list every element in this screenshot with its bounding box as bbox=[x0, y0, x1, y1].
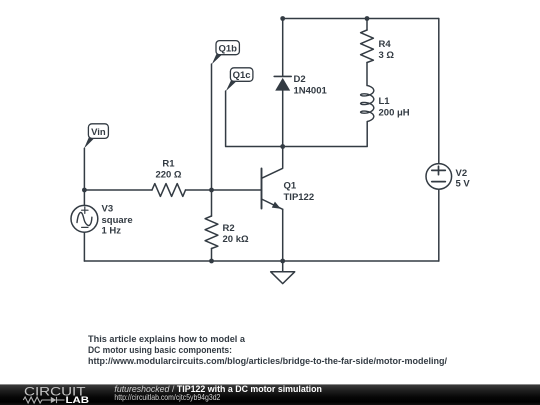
svg-text:http://circuitlab.com/cjtc5yb9: http://circuitlab.com/cjtc5yb94g3d2 bbox=[114, 392, 220, 402]
resistor R4 bbox=[361, 30, 374, 63]
wire V3 bottom bbox=[83, 232, 85, 261]
wire node to R1 bbox=[84, 189, 152, 191]
footer bar bbox=[0, 385, 540, 405]
svg-text:R2: R2 bbox=[223, 223, 235, 234]
svg-text:220 Ω: 220 Ω bbox=[155, 170, 181, 181]
svg-text:L1: L1 bbox=[379, 96, 391, 107]
node label Q1c bbox=[226, 68, 253, 91]
wire V2 bottom bbox=[438, 189, 440, 261]
svg-text:LAB: LAB bbox=[66, 395, 90, 405]
wire right branch top (to V2) bbox=[438, 19, 440, 164]
resistor R1 bbox=[152, 184, 186, 197]
transistor Q1 bbox=[262, 169, 283, 210]
wire base of Q1 bbox=[212, 189, 262, 191]
svg-text:1N4001: 1N4001 bbox=[294, 86, 328, 97]
wire Vin label to node bbox=[83, 148, 85, 190]
voltage source V2 bbox=[426, 164, 452, 190]
wire bottom bus bbox=[84, 260, 438, 262]
diode D2 bbox=[274, 76, 291, 146]
svg-text:http://www.modularcircuits.com: http://www.modularcircuits.com/blog/arti… bbox=[88, 356, 447, 366]
svg-text:3 Ω: 3 Ω bbox=[379, 50, 395, 61]
node label Vin bbox=[84, 124, 108, 149]
wire R1 to node bbox=[186, 189, 212, 191]
wire L1 to collector node bbox=[283, 122, 368, 147]
ground bbox=[271, 261, 295, 284]
wire R2 to bottom bus bbox=[211, 249, 213, 262]
junction node Vin-V3-R1 bbox=[82, 188, 87, 193]
wire node down to R2 bbox=[211, 190, 213, 216]
svg-text:20 kΩ: 20 kΩ bbox=[223, 234, 249, 245]
annotation note text bbox=[88, 334, 447, 366]
svg-text:square: square bbox=[102, 215, 133, 226]
CircuitLab logo schematic squiggle bbox=[23, 397, 64, 403]
svg-text:DC motor using basic component: DC motor using basic components: bbox=[88, 345, 232, 355]
svg-text:200 μH: 200 μH bbox=[379, 107, 410, 118]
wire emitter down bbox=[282, 209, 284, 261]
junction node R4 top bbox=[365, 16, 370, 21]
node label Q1b bbox=[212, 41, 240, 65]
wire D2 branch top bbox=[282, 19, 284, 77]
svg-text:Q1b: Q1b bbox=[218, 43, 237, 54]
junction node R1-R2-Q1b bbox=[209, 188, 214, 193]
svg-text:R1: R1 bbox=[162, 159, 175, 170]
wire top bus to R4 bbox=[366, 19, 368, 31]
svg-text:D2: D2 bbox=[294, 74, 306, 85]
junction node emitter-ground bbox=[280, 259, 285, 264]
svg-text:V3: V3 bbox=[102, 204, 114, 215]
junction node R2 bottom bbox=[209, 259, 214, 264]
svg-text:1 Hz: 1 Hz bbox=[102, 226, 122, 237]
junction node D2 top bbox=[280, 16, 285, 21]
svg-text:TIP122: TIP122 bbox=[284, 192, 315, 203]
wire Q1b label down to node bbox=[211, 64, 213, 190]
wire V3 top bbox=[83, 190, 85, 205]
svg-text:Vin: Vin bbox=[91, 127, 106, 138]
svg-text:5 V: 5 V bbox=[456, 179, 471, 190]
svg-text:This article explains how to m: This article explains how to model a bbox=[88, 334, 246, 344]
svg-text:Q1c: Q1c bbox=[233, 70, 251, 81]
voltage source V3 bbox=[71, 205, 98, 232]
svg-text:Q1: Q1 bbox=[284, 181, 297, 192]
CircuitLab logo wordmark bbox=[24, 385, 89, 405]
resistor R2 bbox=[205, 216, 218, 249]
wire R4 to L1 bbox=[366, 63, 368, 86]
junction node collector bbox=[280, 144, 285, 149]
inductor L1 bbox=[361, 86, 374, 122]
svg-text:R4: R4 bbox=[379, 39, 392, 50]
wire Q1c label down and right bbox=[226, 91, 283, 147]
wire top bus bbox=[283, 18, 439, 20]
wire collector of Q1 bbox=[262, 147, 283, 179]
svg-text:V2: V2 bbox=[456, 168, 468, 179]
